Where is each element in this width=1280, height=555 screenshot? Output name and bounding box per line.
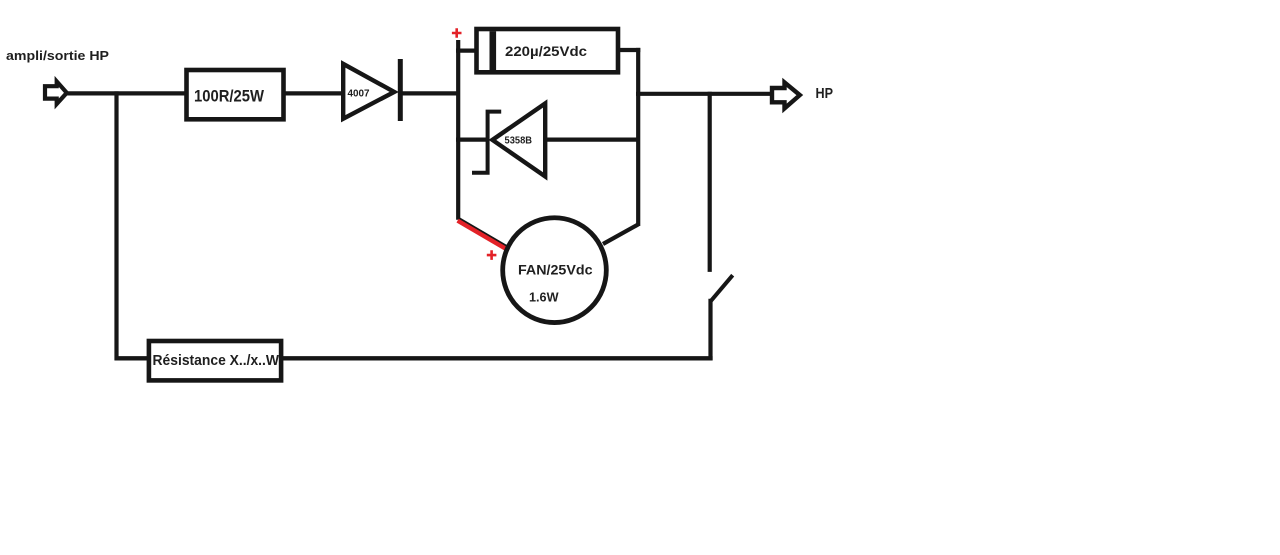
zener Z1 triangle <box>492 103 545 176</box>
polarity plus mark at fan M1 <box>487 250 497 260</box>
wire capacitor C1 right terminal to node B <box>617 48 640 52</box>
switch S1 lever <box>711 275 733 301</box>
output terminal arrow HP <box>772 82 800 108</box>
wire junction to resistance box <box>115 356 151 360</box>
wire node B to output arrow <box>636 92 771 96</box>
node A: left branch vertical wire <box>456 40 460 220</box>
svg-text:100R/25W: 100R/25W <box>194 87 265 106</box>
input terminal arrow <box>45 81 67 104</box>
fan motor M1 circle <box>503 218 607 323</box>
polarity plus mark at capacitor C1 <box>452 28 462 38</box>
svg-text:220µ/25Vdc: 220µ/25Vdc <box>505 43 587 59</box>
bottom return wire to resistance box <box>281 356 713 360</box>
wire zener Z1 anode to node B <box>545 138 640 142</box>
svg-text:5358B: 5358B <box>505 135 533 147</box>
wire node A to capacitor C1 left terminal <box>456 48 477 52</box>
wire node B down-diagonal to fan M1 <box>603 224 638 244</box>
capacitor C1 polarity plate bar <box>490 31 497 70</box>
svg-text:1.6W: 1.6W <box>529 290 559 305</box>
wire input arrow to resistor R1 <box>64 91 187 95</box>
wire diode D1 to node A <box>402 91 460 95</box>
node B: right branch vertical wire <box>636 48 640 226</box>
resistor R2 box <box>149 341 281 380</box>
capacitor C1 box <box>477 29 619 72</box>
red positive lead wire to fan M1 <box>458 221 506 249</box>
switch S1 branch upper vertical wire <box>708 92 712 272</box>
zener Z1 cathode bar with bent ends <box>472 112 501 173</box>
resistor R1 box <box>187 70 284 119</box>
node junction: vertical wire down to bottom branch <box>114 91 118 360</box>
svg-text:HP: HP <box>816 86 834 102</box>
svg-text:FAN/25Vdc: FAN/25Vdc <box>518 262 593 278</box>
wire black edge under red lead <box>458 218 507 246</box>
svg-text:Résistance X../x..W: Résistance X../x..W <box>153 353 280 369</box>
diode D1 triangle <box>343 64 394 119</box>
wire resistor R1 to diode D1 <box>284 91 344 95</box>
diode D1 cathode bar <box>398 59 403 121</box>
switch S1 lower vertical wire <box>708 299 712 361</box>
svg-text:4007: 4007 <box>348 88 370 100</box>
svg-text:ampli/sortie HP: ampli/sortie HP <box>6 48 109 63</box>
wire node A to zener Z1 cathode <box>456 138 488 142</box>
